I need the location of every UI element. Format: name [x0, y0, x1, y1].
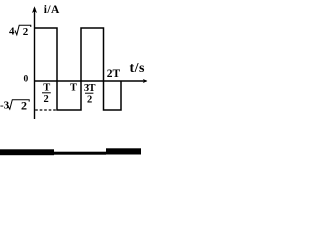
y-axis: [34, 8, 36, 119]
svg-text:T: T: [70, 83, 77, 94]
svg-text:0: 0: [24, 75, 29, 85]
svg-text:2: 2: [21, 98, 27, 112]
bottom scan bar right: [106, 148, 141, 154]
svg-text:3T: 3T: [84, 83, 96, 94]
x-axis: [35, 80, 147, 82]
svg-text:T: T: [43, 83, 50, 94]
dashed level line at -3sqrt2: [35, 109, 57, 111]
bottom scan bar left: [0, 149, 54, 155]
svg-text:2T: 2T: [107, 68, 121, 80]
svg-text:4: 4: [9, 26, 15, 38]
svg-text:2: 2: [87, 95, 92, 106]
svg-text:t/s: t/s: [130, 61, 146, 76]
svg-text:2: 2: [23, 26, 29, 38]
x-axis arrowhead: [143, 79, 148, 83]
svg-text:i/A: i/A: [44, 4, 60, 16]
svg-text:-3: -3: [0, 99, 10, 111]
waveform square wave: [35, 28, 122, 110]
svg-text:2: 2: [44, 94, 49, 105]
bottom scan bar middle thin: [54, 152, 106, 155]
y-axis arrowhead: [32, 6, 37, 13]
